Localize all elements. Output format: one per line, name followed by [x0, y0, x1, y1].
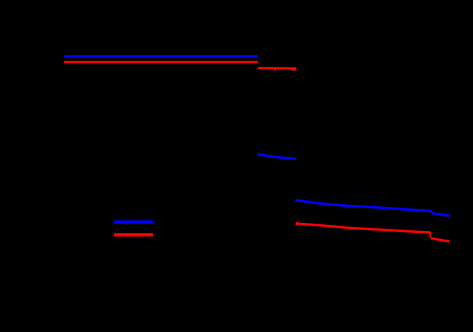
legend handle red: [114, 233, 153, 236]
blue curve segment 2 (middle, sloped): [258, 154, 296, 159]
red vertical step connector: [429, 232, 431, 238]
legend handle blue: [114, 220, 153, 223]
red curve segment 1 (top, flat): [64, 61, 258, 63]
blue curve segment 3 (right, sloped with step): [296, 200, 450, 215]
red censor tick on segment 2: [274, 68, 276, 71]
red tick at start of segment 3: [296, 222, 298, 225]
blue tick at start of segment 3: [295, 199, 297, 202]
red curve segment 4 (after step): [431, 238, 450, 241]
red curve segment 3 (right, sloped): [296, 224, 430, 233]
blue curve segment 1 (top, flat): [64, 55, 259, 58]
red curve segment 2 (small step below segment 1): [258, 67, 296, 70]
blue tick at start of segment 2: [257, 153, 259, 156]
